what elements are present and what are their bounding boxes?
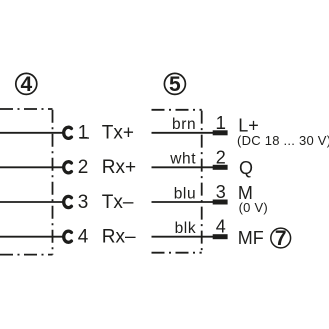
socket contact 3	[64, 196, 72, 207]
svg-text:wht: wht	[169, 151, 196, 168]
svg-text:(DC 18 ... 30 V): (DC 18 ... 30 V)	[237, 133, 329, 148]
wire pin4 left	[0, 236, 65, 238]
svg-text:1: 1	[216, 113, 226, 133]
svg-text:4: 4	[20, 73, 32, 96]
svg-text:2: 2	[216, 147, 226, 167]
callout 4 (circled index for left connector)	[16, 73, 37, 96]
svg-text:Q: Q	[239, 158, 253, 178]
socket contact 4	[64, 231, 72, 242]
wire pin1 left	[0, 132, 65, 134]
svg-text:2: 2	[78, 157, 89, 178]
svg-text:7: 7	[275, 227, 287, 250]
connector housing 5 (dash-dot outline, open on left)	[152, 110, 202, 253]
svg-text:5: 5	[169, 73, 181, 96]
svg-text:brn: brn	[172, 116, 196, 133]
svg-text:Tx+: Tx+	[102, 123, 134, 144]
terminal pin 2	[213, 165, 228, 170]
wire blk (pin 4)	[152, 236, 214, 238]
svg-text:blu: blu	[174, 185, 196, 202]
connector housing 4 (dash-dot outline, clipped at left)	[0, 109, 53, 255]
svg-text:Tx–: Tx–	[102, 192, 134, 213]
svg-text:3: 3	[78, 192, 89, 213]
wire brn (pin 1)	[152, 132, 214, 134]
svg-text:Rx+: Rx+	[102, 157, 136, 178]
svg-text:MF: MF	[238, 228, 264, 248]
svg-text:1: 1	[78, 123, 89, 144]
svg-text:blk: blk	[175, 220, 197, 237]
callout 5 (circled index for right connector)	[164, 73, 185, 96]
svg-text:Rx–: Rx–	[102, 227, 136, 248]
svg-text:4: 4	[78, 227, 89, 248]
terminal pin 4	[213, 234, 228, 239]
svg-text:(0 V): (0 V)	[239, 200, 268, 215]
svg-text:3: 3	[216, 182, 226, 202]
terminal pin 3	[213, 200, 228, 205]
svg-text:4: 4	[216, 217, 226, 237]
socket contact 2	[64, 162, 72, 173]
terminal pin 1	[213, 130, 228, 135]
wire pin3 left	[0, 201, 65, 203]
wire pin2 left	[0, 166, 65, 168]
wire blu (pin 3)	[152, 201, 214, 203]
callout 7 (circled index)	[271, 227, 291, 250]
socket contact 1	[64, 127, 72, 138]
wire wht (pin 2)	[152, 166, 214, 168]
